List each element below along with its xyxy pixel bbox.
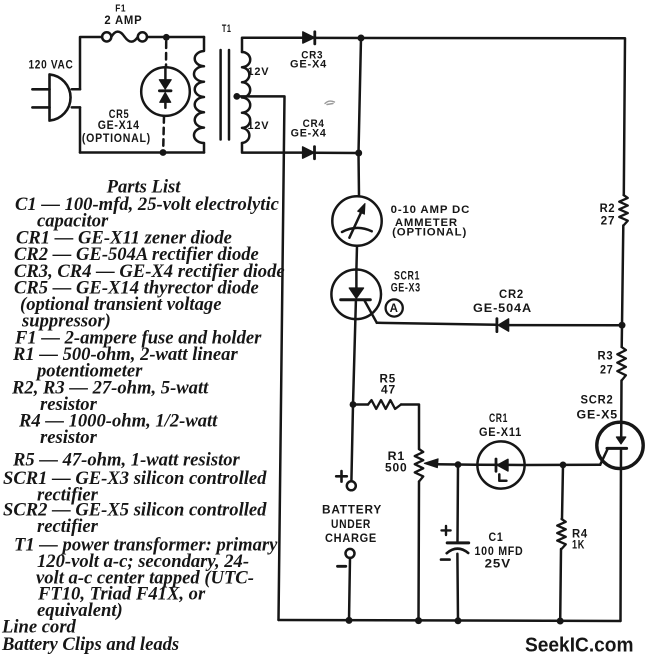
- svg-text:CR2: CR2: [499, 289, 524, 301]
- wire R2 to CR2 junction: [622, 226, 624, 348]
- R1 wiper arrow: [424, 459, 438, 468]
- center tap wire to left drop: [237, 96, 285, 620]
- node A: [386, 299, 403, 316]
- wire SCR1 cathode down to battery plus: [351, 301, 356, 482]
- bottom rail of input loop: [80, 151, 204, 154]
- junction dot CR4 output: [355, 150, 362, 157]
- resistor R2 27 ohm: [619, 195, 628, 226]
- svg-text:GE-X14: GE-X14: [98, 120, 140, 132]
- svg-text:12V: 12V: [248, 120, 270, 132]
- svg-text:GE-X4: GE-X4: [291, 128, 327, 140]
- wire wiper to CR1: [436, 463, 478, 466]
- svg-text:500: 500: [385, 462, 408, 474]
- potentiometer R1 500 ohm: [415, 449, 424, 482]
- svg-text:25V: 25V: [485, 558, 512, 570]
- svg-text:BATTERY: BATTERY: [322, 503, 382, 517]
- svg-text:(OPTIONAL): (OPTIONAL): [82, 133, 151, 145]
- wire fuse to transformer primary: [147, 36, 204, 39]
- svg-text:2 AMP: 2 AMP: [104, 15, 142, 27]
- wire CR1 to SCR2 gate: [525, 464, 601, 467]
- diode CR4 (GE-X4): [303, 147, 315, 159]
- svg-text:120 VAC: 120 VAC: [29, 60, 74, 72]
- svg-text:CHARGE: CHARGE: [325, 531, 377, 545]
- svg-text:GE-X4: GE-X4: [290, 59, 327, 71]
- transformer T1 core: [219, 50, 222, 140]
- battery minus terminal: [346, 549, 355, 558]
- wire CR2 to right rail: [509, 324, 622, 327]
- svg-text:F1: F1: [115, 3, 126, 15]
- resistor R4 1K: [562, 465, 563, 519]
- junction dot bottom of CR5: [160, 149, 167, 156]
- svg-text:resistor: resistor: [40, 427, 98, 448]
- wire R3 to SCR2: [620, 381, 623, 438]
- junction dot R4 bottom: [557, 618, 564, 625]
- junction dot CR2 right rail: [619, 322, 626, 329]
- junction dot C1 top: [455, 461, 462, 468]
- svg-text:GE-X11: GE-X11: [479, 427, 522, 439]
- ammeter M (0-10 A DC): [332, 196, 381, 245]
- zener CR1 (GE-X11): [477, 441, 524, 488]
- svg-text:27: 27: [601, 216, 616, 228]
- wire CR4 to junction: [315, 152, 359, 155]
- resistor R3 27 ohm: [617, 347, 626, 381]
- wire SCR1 gate to CR2: [377, 323, 497, 325]
- transformer T1 secondary winding: [242, 52, 250, 143]
- wire CR3 to top right corner and down right side: [315, 38, 625, 195]
- wire secondary top lead: [242, 38, 303, 52]
- svg-text:SeekIC.com: SeekIC.com: [525, 634, 634, 657]
- wire plug to fuse: [80, 37, 102, 89]
- wire ammeter to SCR1: [355, 246, 358, 270]
- capacitor C1 100 MFD: [441, 465, 469, 621]
- diode CR3 (GE-X4): [303, 32, 315, 44]
- svg-text:R2: R2: [600, 203, 616, 215]
- junction dot C1 bottom: [455, 617, 462, 624]
- svg-text:1K: 1K: [572, 539, 585, 551]
- plug 120 VAC line cord: [32, 74, 80, 120]
- battery plus terminal: [347, 481, 356, 490]
- wire R5 to R1 top: [401, 405, 419, 450]
- svg-text:A: A: [390, 303, 399, 315]
- svg-text:12V: 12V: [248, 66, 270, 78]
- transformer T1 primary winding: [194, 37, 204, 153]
- svg-text:C1: C1: [489, 532, 504, 544]
- svg-text:Battery Clips and leads: Battery Clips and leads: [1, 634, 179, 655]
- bottom rail: [279, 620, 621, 621]
- junction dot R5 tap: [350, 401, 357, 408]
- junction dot top of bridge output: [358, 35, 365, 42]
- wire R1 bottom to bottom rail: [417, 482, 420, 621]
- thyrector CR5 (GE-X14): [141, 42, 190, 151]
- svg-text:R3: R3: [598, 351, 614, 363]
- junction dot battery minus: [346, 617, 353, 624]
- svg-text:(OPTIONAL): (OPTIONAL): [392, 226, 467, 238]
- svg-text:100 MFD: 100 MFD: [475, 546, 524, 558]
- svg-text:0-10 AMP DC: 0-10 AMP DC: [391, 204, 471, 216]
- diode CR2 (GE-504A): [497, 319, 509, 332]
- svg-text:SCR1: SCR1: [394, 271, 420, 283]
- svg-text:R1: R1: [388, 451, 406, 463]
- wire secondary bottom lead: [242, 143, 303, 153]
- junction dot R1 bottom: [415, 617, 422, 624]
- svg-text:GE-X3: GE-X3: [391, 283, 421, 295]
- svg-text:SCR2: SCR2: [581, 395, 614, 407]
- svg-text:CR5: CR5: [109, 109, 130, 121]
- svg-text:GE-X5: GE-X5: [577, 409, 619, 421]
- junction dot R4 top: [560, 462, 567, 469]
- svg-text:T1: T1: [222, 23, 232, 35]
- junction dot center tap: [233, 93, 240, 100]
- svg-text:GE-504A: GE-504A: [473, 303, 532, 315]
- wire battery minus to bottom rail: [349, 558, 350, 621]
- wire SCR2 cathode down right rail: [619, 448, 622, 621]
- svg-text:UNDER: UNDER: [331, 517, 371, 531]
- SCR1 (GE-X3): [331, 270, 381, 323]
- wire plug lower to bottom rail: [79, 107, 82, 152]
- fuse F1: [102, 32, 147, 42]
- svg-text:27: 27: [600, 365, 614, 377]
- resistor R5 47 ohm: [353, 403, 368, 406]
- junction dot top of CR5: [163, 34, 170, 41]
- SCR2 (GE-X5): [597, 422, 643, 468]
- svg-text:CR1: CR1: [489, 413, 508, 425]
- svg-text:47: 47: [381, 385, 396, 397]
- wire bridge output down to ammeter: [359, 38, 362, 196]
- scan smudge artifact: [325, 101, 335, 104]
